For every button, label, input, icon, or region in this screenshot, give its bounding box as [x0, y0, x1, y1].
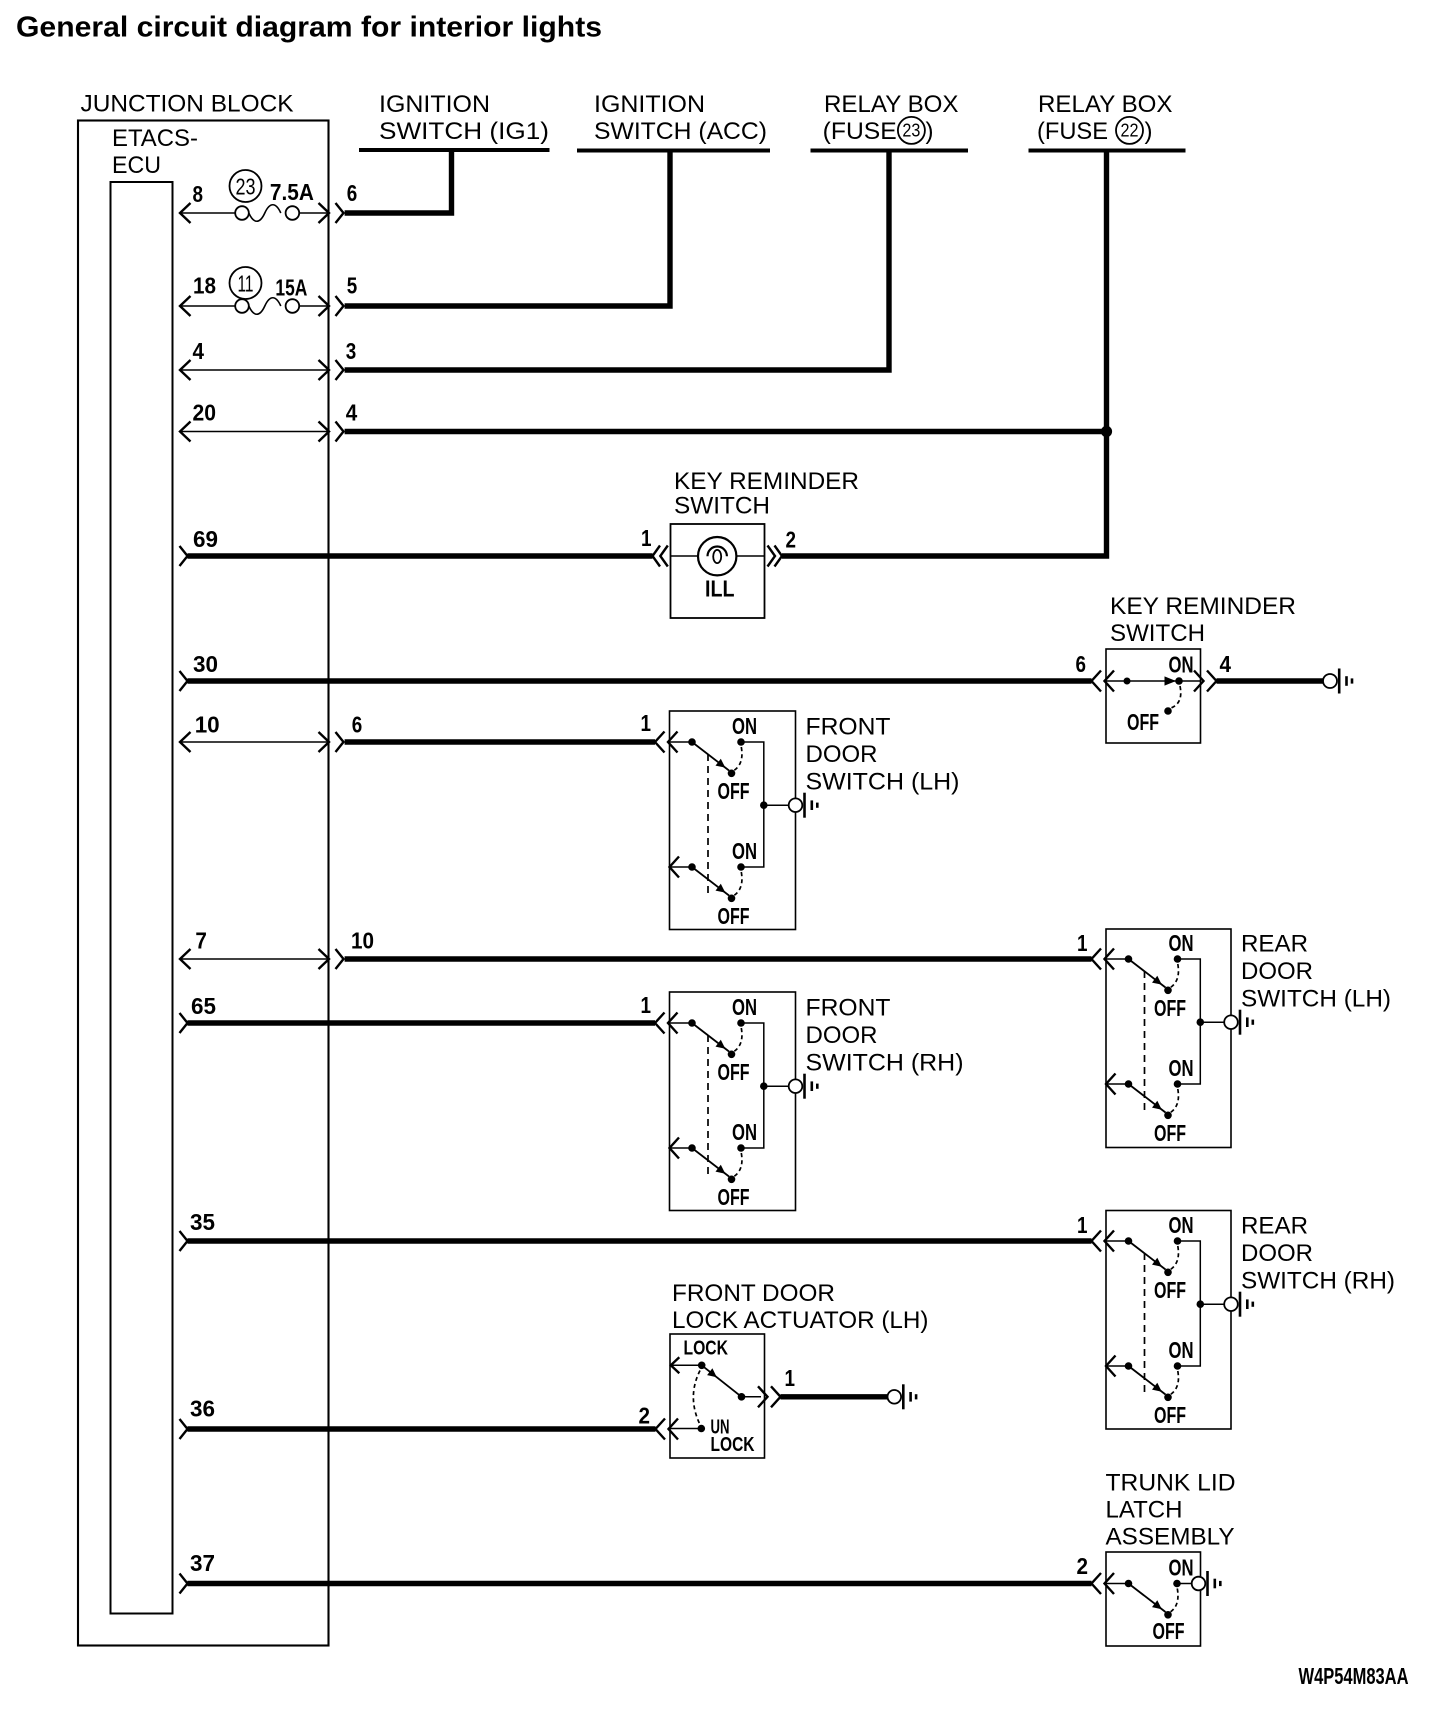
- rear door switch RH lower blade: [1129, 1366, 1166, 1395]
- ground G1: [1323, 674, 1337, 688]
- svg-text:OFF: OFF: [1127, 709, 1159, 735]
- svg-text:LOCK: LOCK: [684, 1338, 729, 1360]
- svg-text:36: 36: [190, 1396, 215, 1422]
- trunk lid latch travel arc: [1170, 1589, 1178, 1613]
- rear door switch LH pin 1 connector arrows: [1092, 949, 1102, 970]
- front door lock actuator box: [670, 1334, 765, 1458]
- svg-text:2: 2: [639, 1402, 651, 1428]
- svg-text:ON: ON: [1169, 1055, 1194, 1081]
- svg-text:OFF: OFF: [1154, 1277, 1186, 1303]
- front door switch RH lower blade: [692, 1148, 729, 1177]
- wire ECU pin37 to trunk lid latch pin2: [180, 1574, 188, 1594]
- trunk lid latch ON contact: [1173, 1580, 1181, 1588]
- key reminder switch2 OFF contact: [1164, 707, 1172, 715]
- trunk lid latch common contact: [1106, 1583, 1129, 1585]
- trunk lid latch blade: [1129, 1584, 1166, 1613]
- connector arrows into key reminder switch2 pin6: [1092, 671, 1102, 692]
- front door switch RH ground junction node: [760, 1082, 768, 1090]
- svg-text:3: 3: [346, 338, 357, 364]
- svg-text:OFF: OFF: [1153, 1618, 1185, 1644]
- svg-text:10: 10: [351, 928, 374, 954]
- wire pin7 inside junction block: [180, 949, 191, 969]
- rear door switch RH pin 1 connector arrows: [1092, 1231, 1102, 1252]
- svg-text:LATCH: LATCH: [1106, 1497, 1183, 1524]
- svg-text:18: 18: [193, 272, 216, 298]
- svg-text:6: 6: [347, 180, 358, 206]
- svg-text:REAR: REAR: [1241, 931, 1308, 958]
- svg-text:65: 65: [191, 993, 216, 1019]
- front door switch RH mechanical link (dashed): [707, 1035, 709, 1178]
- front door switch RH lower common contact: [670, 1147, 693, 1149]
- svg-text:6: 6: [352, 711, 363, 737]
- fuse 22 header circled number: [1116, 117, 1143, 144]
- svg-text:REAR: REAR: [1241, 1213, 1308, 1240]
- svg-text:RELAY BOX: RELAY BOX: [1038, 91, 1173, 118]
- svg-text:SWITCH (LH): SWITCH (LH): [1241, 985, 1391, 1012]
- svg-text:7.5A: 7.5A: [270, 179, 314, 205]
- front door switch RH lower ON travel arc: [734, 1153, 742, 1177]
- svg-text:ON: ON: [732, 1119, 757, 1145]
- svg-text:ASSEMBLY: ASSEMBLY: [1106, 1524, 1235, 1551]
- ground G3: [1192, 1577, 1206, 1591]
- svg-text:15A: 15A: [275, 274, 307, 300]
- key reminder switch U2 box: [1106, 649, 1201, 743]
- wire key reminder switch2 pin4 to ground: [1217, 678, 1324, 683]
- rear door switch LH upper ON travel arc: [1170, 964, 1178, 988]
- svg-text:LOCK ACTUATOR (LH): LOCK ACTUATOR (LH): [672, 1307, 929, 1334]
- lock actuator travel arc (dashed): [693, 1371, 700, 1424]
- ground G2: [888, 1390, 902, 1404]
- svg-text:ON: ON: [732, 994, 757, 1020]
- svg-text:DOOR: DOOR: [1241, 958, 1313, 985]
- front door switch LH lower ON travel arc: [734, 872, 742, 896]
- wire JB pin4 to fuse22 node: [345, 429, 1107, 434]
- svg-text:69: 69: [193, 526, 218, 552]
- rear door switch RH lower ON travel arc: [1170, 1371, 1178, 1395]
- svg-text:SWITCH: SWITCH: [674, 493, 770, 520]
- front door switch LH ground symbol: [789, 798, 803, 812]
- svg-text:ON: ON: [1169, 930, 1194, 956]
- svg-text:8: 8: [193, 181, 204, 207]
- svg-text:ON: ON: [732, 838, 757, 864]
- rear door switch RH ground junction node: [1197, 1300, 1205, 1308]
- svg-text:4: 4: [1220, 651, 1232, 677]
- svg-text:): ): [1145, 118, 1153, 145]
- svg-text:1: 1: [641, 992, 652, 1018]
- svg-text:SWITCH: SWITCH: [1110, 620, 1205, 647]
- front door switch RH pin 1 connector arrows: [655, 1013, 665, 1034]
- junction node fuse22/pin20: [1101, 426, 1112, 437]
- svg-text:ON: ON: [1169, 1337, 1194, 1363]
- connector arrows out of key reminder switch2 pin4: [1194, 671, 1204, 692]
- front door switch LH lower blade: [692, 867, 729, 896]
- wire lock actuator pin1 to ground: [781, 1394, 888, 1399]
- svg-text:OFF: OFF: [718, 778, 750, 804]
- svg-text:DOOR: DOOR: [806, 1022, 878, 1049]
- svg-text:General circuit diagram for in: General circuit diagram for interior lig…: [16, 12, 602, 44]
- rear door switch RH upper ON travel arc: [1170, 1246, 1178, 1270]
- svg-text:37: 37: [190, 1550, 215, 1576]
- svg-text:ON: ON: [1169, 1212, 1194, 1238]
- rear door switch LH upper common contact: [1106, 958, 1129, 960]
- rear door switch RH lower arrow terminal: [1106, 1356, 1116, 1377]
- svg-text:(FUSE: (FUSE: [1037, 118, 1108, 145]
- key reminder switch2 common node: [1124, 678, 1131, 685]
- svg-text:OFF: OFF: [1154, 995, 1186, 1021]
- front door switch LH lower ON contact: [737, 863, 745, 871]
- svg-text:KEY REMINDER: KEY REMINDER: [1110, 593, 1296, 620]
- wire pin10 inside junction block: [180, 732, 191, 752]
- front door switch RH upper ON travel arc: [734, 1028, 742, 1052]
- key reminder switch2 travel arc: [1171, 686, 1181, 708]
- svg-text:TRUNK LID: TRUNK LID: [1106, 1470, 1236, 1497]
- svg-text:5: 5: [347, 272, 358, 298]
- arrow at junction block edge pin 6: [319, 203, 330, 223]
- wire JB pin10b to rear door switch LH: [345, 956, 1092, 961]
- front door switch LH ground junction node: [760, 801, 768, 809]
- svg-text:10: 10: [195, 711, 220, 737]
- rear door switch LH box: [1106, 929, 1231, 1148]
- rear door switch LH lower ON contact: [1174, 1080, 1182, 1088]
- svg-text:FRONT: FRONT: [806, 995, 891, 1022]
- svg-text:OFF: OFF: [1154, 1120, 1186, 1146]
- rear door switch RH lower ON contact: [1174, 1362, 1182, 1370]
- front door switch LH ON contacts to ground wire: [741, 742, 764, 805]
- svg-text:W4P54M83AA: W4P54M83AA: [1299, 1663, 1409, 1689]
- svg-text:SWITCH (LH): SWITCH (LH): [806, 768, 960, 795]
- front door switch RH upper common contact: [670, 1022, 693, 1024]
- svg-text:1: 1: [1077, 1212, 1088, 1238]
- arrow at junction block edge pin 4: [336, 422, 344, 442]
- svg-text:OFF: OFF: [1154, 1402, 1186, 1428]
- rear door switch LH mechanical link (dashed): [1144, 971, 1146, 1114]
- svg-text:ON: ON: [1169, 652, 1194, 678]
- rear door switch LH lower ON travel arc: [1170, 1089, 1178, 1113]
- front door switch LH pin 1 connector arrows: [655, 732, 665, 753]
- front door switch RH ground symbol: [789, 1079, 803, 1093]
- fuse 23 header circled number: [898, 117, 925, 144]
- rear door switch RH lower OFF contact: [1164, 1394, 1172, 1402]
- key reminder switch2 moving contact arrow: [1165, 676, 1177, 685]
- rear door switch LH ground symbol: [1224, 1015, 1238, 1029]
- rear door switch LH lower OFF contact: [1164, 1112, 1172, 1120]
- svg-text:OFF: OFF: [718, 903, 750, 929]
- arrow at junction block edge pin 3: [336, 360, 344, 380]
- connector arrows out of key reminder switch pin2: [768, 546, 776, 567]
- svg-text:LOCK: LOCK: [711, 1434, 755, 1456]
- svg-text:(FUSE: (FUSE: [823, 118, 897, 145]
- front door switch LH lower arrow terminal: [670, 857, 680, 878]
- front door switch RH upper ON contact: [737, 1019, 745, 1027]
- junction block outline: [78, 121, 329, 1646]
- svg-text:ILL: ILL: [705, 576, 735, 602]
- front door switch LH upper common contact: [670, 741, 693, 743]
- wire ECU pin30 to key reminder switch2: [180, 671, 188, 691]
- connector arrows out of lock actuator pin1: [758, 1386, 768, 1407]
- key reminder switch U1 box: [671, 524, 765, 618]
- svg-text:ON: ON: [1169, 1554, 1194, 1580]
- illumination lamp ILL symbol: [698, 537, 736, 575]
- svg-text:30: 30: [193, 651, 218, 677]
- svg-text:ECU: ECU: [112, 152, 161, 179]
- svg-text:RELAY BOX: RELAY BOX: [824, 91, 959, 118]
- front door switch RH upper OFF contact: [728, 1051, 736, 1059]
- relay box fuse22 terminal bar: [1029, 149, 1186, 153]
- lock actuator LOCK terminal arrow: [671, 1357, 680, 1373]
- svg-text:2: 2: [786, 527, 797, 553]
- svg-text:1: 1: [785, 1365, 796, 1391]
- ignition switch ACC terminal bar: [577, 149, 770, 153]
- front door switch LH upper ON travel arc: [734, 747, 742, 771]
- svg-text:6: 6: [1076, 651, 1087, 677]
- fuse F11 symbol: [235, 299, 249, 313]
- connector arrows into lock actuator pin2: [656, 1419, 666, 1440]
- rear door switch LH lower common contact: [1106, 1083, 1129, 1085]
- key reminder switch2 ON contact: [1175, 677, 1183, 685]
- svg-text:1: 1: [1077, 930, 1088, 956]
- rear door switch RH box: [1106, 1211, 1231, 1430]
- fuse F11 circled number: [230, 267, 262, 299]
- lock actuator UNLOCK contact: [698, 1425, 706, 1433]
- rear door switch LH ground junction node: [1197, 1018, 1205, 1026]
- svg-text:SWITCH (IG1): SWITCH (IG1): [379, 118, 549, 145]
- arrow at junction block edge pin 10b: [336, 949, 344, 969]
- wire relay box fuse22 down to key reminder switch: [782, 151, 1107, 557]
- rear door switch RH lower common contact: [1106, 1365, 1129, 1367]
- svg-text:ETACS-: ETACS-: [112, 125, 198, 152]
- ignition switch IG1 terminal bar: [359, 148, 550, 152]
- svg-text:): ): [926, 118, 934, 145]
- svg-text:35: 35: [190, 1209, 215, 1235]
- rear door switch RH ground symbol: [1224, 1297, 1238, 1311]
- front door switch LH lower common contact: [670, 866, 693, 868]
- connector arrows into key reminder switch pin1: [653, 546, 661, 567]
- wire pin18 to fuse (arrow at ECU): [180, 296, 191, 316]
- wire ECU pin69 to key reminder switch pin1: [180, 546, 188, 566]
- front door switch RH lower arrow terminal: [670, 1138, 680, 1159]
- rear door switch RH upper common contact: [1106, 1240, 1129, 1242]
- front door switch LH box: [670, 711, 796, 930]
- svg-text:OFF: OFF: [718, 1059, 750, 1085]
- front door switch RH ON contacts to ground wire: [741, 1023, 764, 1086]
- svg-text:1: 1: [641, 525, 652, 551]
- svg-text:SWITCH (RH): SWITCH (RH): [806, 1049, 964, 1076]
- lock actuator common contact: [698, 1362, 706, 1370]
- svg-text:OFF: OFF: [718, 1184, 750, 1210]
- front door switch RH upper blade: [692, 1023, 729, 1052]
- svg-text:1: 1: [641, 710, 652, 736]
- rear door switch LH lower arrow terminal: [1106, 1074, 1116, 1095]
- front door switch LH upper ON contact: [737, 738, 745, 746]
- wire JB pin6b to front door switch LH: [345, 739, 655, 744]
- svg-text:IGNITION: IGNITION: [594, 91, 705, 118]
- wire pin20 inside junction block: [180, 422, 191, 442]
- wire ECU pin65 to front door switch RH: [180, 1013, 188, 1033]
- trunk lid latch OFF contact: [1164, 1611, 1172, 1619]
- svg-text:11: 11: [238, 271, 254, 297]
- front door switch LH upper OFF contact: [728, 770, 736, 778]
- wire JB pin6 to ignition switch IG1: [345, 150, 452, 213]
- rear door switch RH upper OFF contact: [1164, 1269, 1172, 1277]
- rear door switch LH ON contacts to ground wire: [1178, 959, 1201, 1022]
- wire JB pin5 to ignition switch ACC: [345, 151, 670, 307]
- svg-text:7: 7: [195, 928, 207, 954]
- lock actuator output contact: [738, 1393, 746, 1401]
- rear door switch LH upper OFF contact: [1164, 987, 1172, 995]
- front door switch LH mechanical link (dashed): [707, 754, 709, 897]
- wire pin4 inside junction block: [180, 360, 191, 380]
- connector arrows into trunk lid latch pin2: [1092, 1573, 1102, 1594]
- svg-text:23: 23: [902, 121, 920, 141]
- svg-text:2: 2: [1077, 1553, 1089, 1579]
- svg-text:FRONT: FRONT: [806, 714, 891, 741]
- svg-text:20: 20: [193, 400, 217, 426]
- rear door switch RH ON contacts to ground wire: [1178, 1241, 1201, 1304]
- lock actuator blade: [702, 1365, 742, 1397]
- front door switch RH lower OFF contact: [728, 1176, 736, 1184]
- wire pin8 to fuse (arrow at ECU): [180, 203, 191, 223]
- front door switch LH upper blade: [692, 742, 729, 771]
- svg-text:4: 4: [193, 338, 205, 364]
- svg-text:23: 23: [236, 174, 256, 200]
- wire through key reminder switch2: [1106, 680, 1201, 682]
- rear door switch LH upper ON contact: [1174, 955, 1182, 963]
- trunk lid latch ON to ground wire: [1177, 1583, 1192, 1585]
- rear door switch RH mechanical link (dashed): [1144, 1253, 1146, 1396]
- svg-text:DOOR: DOOR: [806, 741, 878, 768]
- front door switch RH lower ON contact: [737, 1144, 745, 1152]
- svg-text:FRONT DOOR: FRONT DOOR: [672, 1280, 835, 1307]
- svg-text:IGNITION: IGNITION: [379, 91, 490, 118]
- svg-text:JUNCTION BLOCK: JUNCTION BLOCK: [81, 91, 294, 118]
- svg-text:22: 22: [1121, 121, 1139, 141]
- svg-text:SWITCH (ACC): SWITCH (ACC): [594, 118, 767, 145]
- fuse F23 circled number: [230, 170, 262, 202]
- fuse F23 symbol: [235, 206, 249, 220]
- arrow at junction block edge pin 6b: [336, 732, 344, 752]
- ETACS-ECU box: [111, 182, 173, 1614]
- rear door switch LH upper blade: [1129, 959, 1166, 988]
- trunk lid latch box: [1106, 1552, 1201, 1646]
- wire through key reminder switch: [671, 555, 765, 557]
- arrow at junction block edge pin 5: [319, 296, 330, 316]
- front door switch LH lower OFF contact: [728, 895, 736, 903]
- rear door switch RH upper ON contact: [1174, 1237, 1182, 1245]
- svg-text:ON: ON: [732, 713, 757, 739]
- wire ECU pin36 to front door lock actuator pin2: [180, 1419, 188, 1439]
- relay box fuse23 terminal bar: [811, 149, 969, 153]
- rear door switch RH upper blade: [1129, 1241, 1166, 1270]
- svg-text:KEY REMINDER: KEY REMINDER: [674, 468, 859, 495]
- wire JB pin3 to relay box fuse23: [345, 151, 889, 371]
- svg-text:4: 4: [346, 400, 358, 426]
- wire ECU pin35 to rear door switch RH: [180, 1231, 188, 1251]
- rear door switch LH lower blade: [1129, 1084, 1166, 1113]
- front door switch RH box: [670, 992, 796, 1211]
- svg-text:SWITCH (RH): SWITCH (RH): [1241, 1267, 1395, 1294]
- svg-text:DOOR: DOOR: [1241, 1240, 1313, 1267]
